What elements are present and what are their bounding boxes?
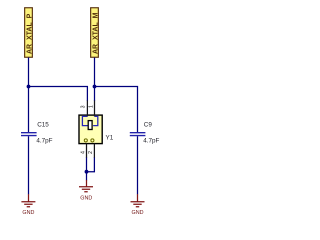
wire left vertical upper (port to C15) [28, 58, 30, 133]
capacitor C15 [21, 122, 53, 145]
svg-text:2: 2 [88, 151, 94, 154]
ground right GND [131, 194, 145, 216]
pin 1 stub [94, 101, 96, 117]
svg-text:1: 1 [88, 105, 94, 108]
wire left vertical lower (C15 to GND) [28, 136, 30, 194]
port AR_XTAL_P [25, 8, 34, 58]
right plate [93, 116, 98, 125]
pin 3 stub [86, 101, 88, 117]
svg-text:AR_XTAL_P: AR_XTAL_P [26, 13, 33, 54]
ground left GND [21, 194, 35, 216]
svg-text:4: 4 [81, 151, 87, 154]
wire horizontal left to crystal pin 3 [29, 87, 88, 102]
svg-text:C15: C15 [37, 122, 49, 129]
node junction left [27, 85, 31, 89]
case pin circle right [91, 139, 94, 142]
svg-text:AR_XTAL_M: AR_XTAL_M [92, 12, 99, 54]
wire crystal pin 2 down and left to junction [93, 143, 95, 158]
wire C9 to GND [137, 136, 139, 194]
svg-text:GND: GND [80, 195, 92, 201]
svg-text:4.7pF: 4.7pF [36, 138, 52, 145]
svg-text:GND: GND [22, 210, 34, 216]
svg-text:4.7pF: 4.7pF [143, 138, 159, 145]
port AR_XTAL_M [91, 8, 100, 58]
svg-text:C9: C9 [144, 122, 153, 129]
svg-text:GND: GND [132, 210, 144, 216]
wire horizontal right to C9 [95, 87, 138, 133]
left plate [82, 116, 88, 125]
node junction middle [85, 170, 89, 174]
wire right port down to crystal pin 1 [94, 58, 96, 101]
node junction right [93, 85, 97, 89]
svg-text:Y1: Y1 [106, 135, 114, 142]
quartz body [88, 121, 92, 130]
crystal Y1 [79, 101, 114, 144]
ground middle GND [79, 180, 93, 201]
wire crystal pin 4 down to gnd [86, 143, 88, 158]
case pin circle left [84, 139, 87, 142]
svg-text:3: 3 [80, 105, 86, 108]
capacitor C9 [130, 122, 160, 145]
